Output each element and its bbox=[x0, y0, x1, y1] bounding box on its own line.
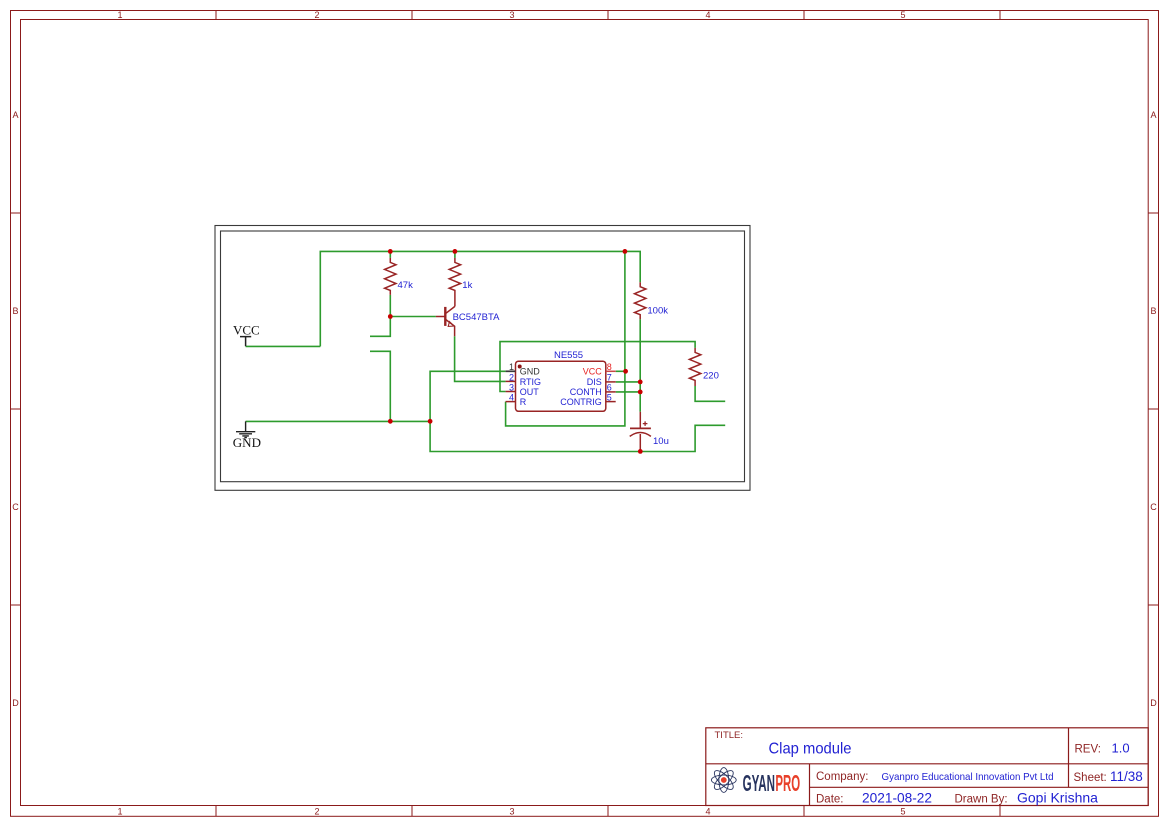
svg-text:1: 1 bbox=[509, 362, 514, 372]
svg-text:1k: 1k bbox=[462, 280, 472, 291]
title value Clap module bbox=[769, 740, 852, 757]
logo gyanpro icon bbox=[711, 768, 736, 793]
capacitor C1 10u polarized bbox=[630, 412, 651, 452]
value label 10u bbox=[653, 436, 669, 447]
svg-text:CONTRIG: CONTRIG bbox=[560, 397, 602, 407]
drawn by value Gopi Krishna bbox=[1017, 790, 1098, 806]
date value bbox=[862, 791, 932, 806]
resistor R3 100k bbox=[635, 282, 646, 319]
sheet value 11/38 bbox=[1110, 769, 1143, 784]
svg-text:Date:: Date: bbox=[816, 794, 844, 806]
svg-text:1: 1 bbox=[117, 10, 122, 20]
wire ground rail to pin1 bbox=[430, 371, 506, 421]
wire 220 bottom stub bbox=[695, 386, 725, 401]
svg-text:DIS: DIS bbox=[587, 377, 602, 387]
svg-text:1: 1 bbox=[117, 807, 122, 817]
svg-text:8: 8 bbox=[607, 362, 612, 372]
U1 pin numbers right bbox=[607, 362, 612, 403]
wire 47k top stub bbox=[389, 251, 391, 258]
junction top rail at 1k bbox=[453, 249, 458, 254]
wire base node to Q1 base bbox=[390, 316, 436, 318]
svg-text:2: 2 bbox=[509, 372, 514, 382]
svg-text:BC547BTA: BC547BTA bbox=[453, 312, 500, 323]
wire pin7 link bbox=[616, 381, 641, 383]
junction ground rail mic bbox=[388, 419, 393, 424]
junction base node bbox=[388, 314, 393, 319]
U1 pin 1 GND stub bbox=[506, 370, 516, 372]
svg-text:4: 4 bbox=[705, 807, 710, 817]
title block frame bbox=[706, 728, 1148, 806]
svg-text:A: A bbox=[1150, 110, 1156, 120]
svg-text:B: B bbox=[12, 306, 18, 316]
VCC power symbol bbox=[240, 337, 251, 347]
svg-text:10u: 10u bbox=[653, 436, 669, 447]
svg-text:VCC: VCC bbox=[583, 367, 603, 377]
part label NE555 bbox=[554, 350, 583, 361]
svg-text:Gyanpro Educational Innovation: Gyanpro Educational Innovation Pvt Ltd bbox=[882, 771, 1054, 783]
U1 pin 2 stub bbox=[506, 380, 516, 382]
svg-text:5: 5 bbox=[900, 807, 905, 817]
svg-text:100k: 100k bbox=[647, 305, 668, 316]
wire VCC riser and top power rail bbox=[320, 251, 640, 346]
U1 pin names right bbox=[560, 367, 602, 407]
U1 pin1 marker dot bbox=[518, 365, 522, 369]
junction top rail at 47k bbox=[388, 249, 393, 254]
title block labels bbox=[715, 730, 1107, 806]
svg-text:PRO: PRO bbox=[775, 770, 800, 796]
value label 1k bbox=[462, 280, 472, 291]
svg-text:4: 4 bbox=[509, 393, 514, 403]
U1 pin 6 stub bbox=[606, 391, 616, 393]
wire VCC branch to pin8 and wrap to pin4 bbox=[506, 251, 625, 426]
wire 1k top stub bbox=[454, 251, 456, 258]
wire mic upper open stub bbox=[370, 317, 390, 337]
wire 100k bottom to cap top bbox=[639, 319, 641, 412]
svg-text:D: D bbox=[12, 698, 19, 708]
svg-text:5: 5 bbox=[900, 10, 905, 20]
resistor R4 220 bbox=[689, 348, 700, 386]
svg-text:Clap module: Clap module bbox=[769, 740, 852, 757]
svg-text:Sheet:: Sheet: bbox=[1074, 772, 1107, 784]
svg-text:OUT: OUT bbox=[520, 387, 540, 397]
svg-text:A: A bbox=[12, 110, 18, 120]
wire VCC net horizontal bbox=[246, 345, 321, 347]
svg-text:R: R bbox=[520, 397, 527, 407]
logo text GYANPRO bbox=[743, 770, 801, 796]
svg-text:D: D bbox=[1150, 698, 1157, 708]
svg-text:Drawn By:: Drawn By: bbox=[955, 794, 1008, 806]
svg-text:7: 7 bbox=[607, 372, 612, 382]
junction pin6 CONTH bbox=[638, 390, 643, 395]
wire GND rail bbox=[246, 420, 431, 422]
junction top rail at pin8 branch bbox=[623, 249, 628, 254]
svg-text:B: B bbox=[1150, 306, 1156, 316]
wire bottom rail to cap and right stub bbox=[430, 421, 725, 451]
U1 pin 4 stub bbox=[506, 401, 516, 403]
junction pin7 DIS bbox=[638, 380, 643, 385]
junction cap bottom bbox=[638, 449, 643, 454]
company value bbox=[882, 771, 1054, 783]
ground symbol bbox=[236, 421, 255, 437]
junction pin8 bbox=[623, 369, 628, 374]
U1 pin numbers left bbox=[509, 362, 514, 403]
resistor R2 1k bbox=[449, 258, 460, 307]
wire 47k bottom to base node bbox=[389, 295, 391, 317]
svg-text:2021-08-22: 2021-08-22 bbox=[862, 791, 932, 806]
U1 pin names left bbox=[520, 367, 541, 407]
svg-text:C: C bbox=[12, 502, 19, 512]
svg-text:3: 3 bbox=[509, 10, 514, 20]
svg-text:47k: 47k bbox=[398, 280, 414, 291]
svg-text:2: 2 bbox=[314, 10, 319, 20]
svg-text:6: 6 bbox=[607, 382, 612, 392]
value label 220 bbox=[703, 371, 719, 382]
svg-text:3: 3 bbox=[509, 382, 514, 392]
svg-text:5: 5 bbox=[607, 393, 612, 403]
wire emitter to pin2 bbox=[455, 336, 506, 381]
svg-text:4: 4 bbox=[705, 10, 710, 20]
op-amp U1 NE555 body bbox=[516, 361, 606, 411]
net label VCC bbox=[233, 323, 260, 338]
svg-text:3: 3 bbox=[509, 807, 514, 817]
svg-text:Company:: Company: bbox=[816, 771, 868, 783]
value label 100k bbox=[647, 305, 668, 316]
svg-text:RTIG: RTIG bbox=[520, 377, 541, 387]
svg-text:220: 220 bbox=[703, 371, 719, 382]
value label BC547BTA bbox=[453, 312, 500, 323]
U1 pin 7 stub bbox=[606, 381, 616, 383]
svg-text:1.0: 1.0 bbox=[1112, 741, 1130, 756]
svg-text:11/38: 11/38 bbox=[1110, 769, 1143, 784]
U1 pin 5 stub bbox=[606, 401, 616, 403]
svg-text:NE555: NE555 bbox=[554, 350, 583, 361]
junction ground rail pin1 branch bbox=[428, 419, 433, 424]
U1 pin 8 stub bbox=[606, 370, 616, 372]
rev value 1.0 bbox=[1112, 741, 1130, 756]
svg-text:Gopi Krishna: Gopi Krishna bbox=[1017, 790, 1098, 806]
svg-text:CONTH: CONTH bbox=[570, 387, 602, 397]
svg-text:TITLE:: TITLE: bbox=[715, 730, 744, 741]
svg-text:GND: GND bbox=[520, 367, 541, 377]
transistor Q1 BC547BTA bbox=[436, 306, 455, 336]
resistor R1 47k bbox=[385, 258, 396, 295]
svg-text:GYAN: GYAN bbox=[743, 770, 775, 796]
value label 47k bbox=[398, 280, 414, 291]
U1 pin 3 stub bbox=[506, 391, 516, 393]
net label GND bbox=[233, 435, 261, 450]
wire pin6 link bbox=[616, 391, 641, 393]
svg-text:VCC: VCC bbox=[233, 323, 260, 338]
wire pin3 OUT loop to 220 top bbox=[500, 342, 695, 392]
wire mic lower open stub to ground rail bbox=[370, 351, 390, 421]
svg-text:2: 2 bbox=[314, 807, 319, 817]
svg-text:C: C bbox=[1150, 502, 1157, 512]
svg-text:REV:: REV: bbox=[1075, 744, 1101, 756]
svg-text:GND: GND bbox=[233, 435, 261, 450]
wire pin8 link bbox=[616, 370, 626, 372]
